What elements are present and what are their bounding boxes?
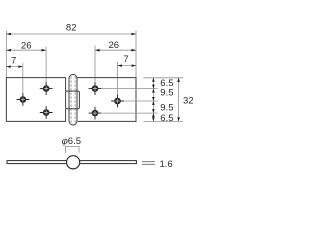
screw hole left leaf middle row <box>17 93 30 106</box>
screw hole right leaf top row <box>89 82 102 95</box>
extension line to hole column 7 right (x=117.5) <box>117 62 119 95</box>
dimension line 7 right <box>118 65 137 67</box>
screw hole right leaf middle row <box>111 95 124 108</box>
row extension top edge <box>143 77 183 79</box>
extension line to hole column 7 left (x=22.8) <box>22 63 24 93</box>
row3 extension line <box>101 112 158 114</box>
thickness callout lines <box>142 162 155 165</box>
dimension line 82 <box>6 33 136 35</box>
row1 extension line <box>101 88 158 90</box>
side view barrel circle <box>67 156 80 169</box>
screw hole left leaf top row <box>40 82 53 95</box>
screw hole right leaf bottom row <box>89 107 102 120</box>
svg-text:26: 26 <box>21 40 32 51</box>
svg-text:9.5: 9.5 <box>160 102 173 113</box>
svg-text:32: 32 <box>183 95 194 106</box>
svg-text:82: 82 <box>66 22 77 33</box>
pin hidden dashed lines <box>70 76 72 123</box>
extension line right (x=136) <box>135 31 137 78</box>
svg-text:7: 7 <box>123 54 128 65</box>
screw hole left leaf bottom row <box>40 106 53 119</box>
svg-text:6.5: 6.5 <box>160 113 173 124</box>
svg-text:26: 26 <box>109 40 120 51</box>
svg-text:7: 7 <box>11 56 16 67</box>
dimension line 26 left <box>6 49 46 51</box>
svg-text:φ6.5: φ6.5 <box>62 136 81 147</box>
row2 extension line <box>124 100 158 102</box>
middle knuckle box <box>66 91 80 109</box>
dimension line 32 <box>178 78 180 122</box>
right leaf outline <box>77 78 136 122</box>
side view plate bar <box>7 161 136 164</box>
svg-text:9.5: 9.5 <box>160 87 173 98</box>
dimension line 7 left <box>6 66 22 68</box>
barrel pin capsule <box>69 74 77 125</box>
chain dimension line 6.5/9.5/9.5/6.5 <box>152 78 154 122</box>
left leaf outline <box>6 78 65 122</box>
leader bracket for barrel diameter <box>65 146 79 153</box>
extension line to hole column 26 right (x=95) <box>94 46 96 83</box>
extension line to hole column 26 left (x=46.1) <box>45 47 47 85</box>
svg-text:1.6: 1.6 <box>160 159 173 170</box>
dimension line 26 right <box>95 49 136 51</box>
row extension bottom edge <box>143 120 183 122</box>
extension line left (x=6.35) <box>5 31 7 78</box>
